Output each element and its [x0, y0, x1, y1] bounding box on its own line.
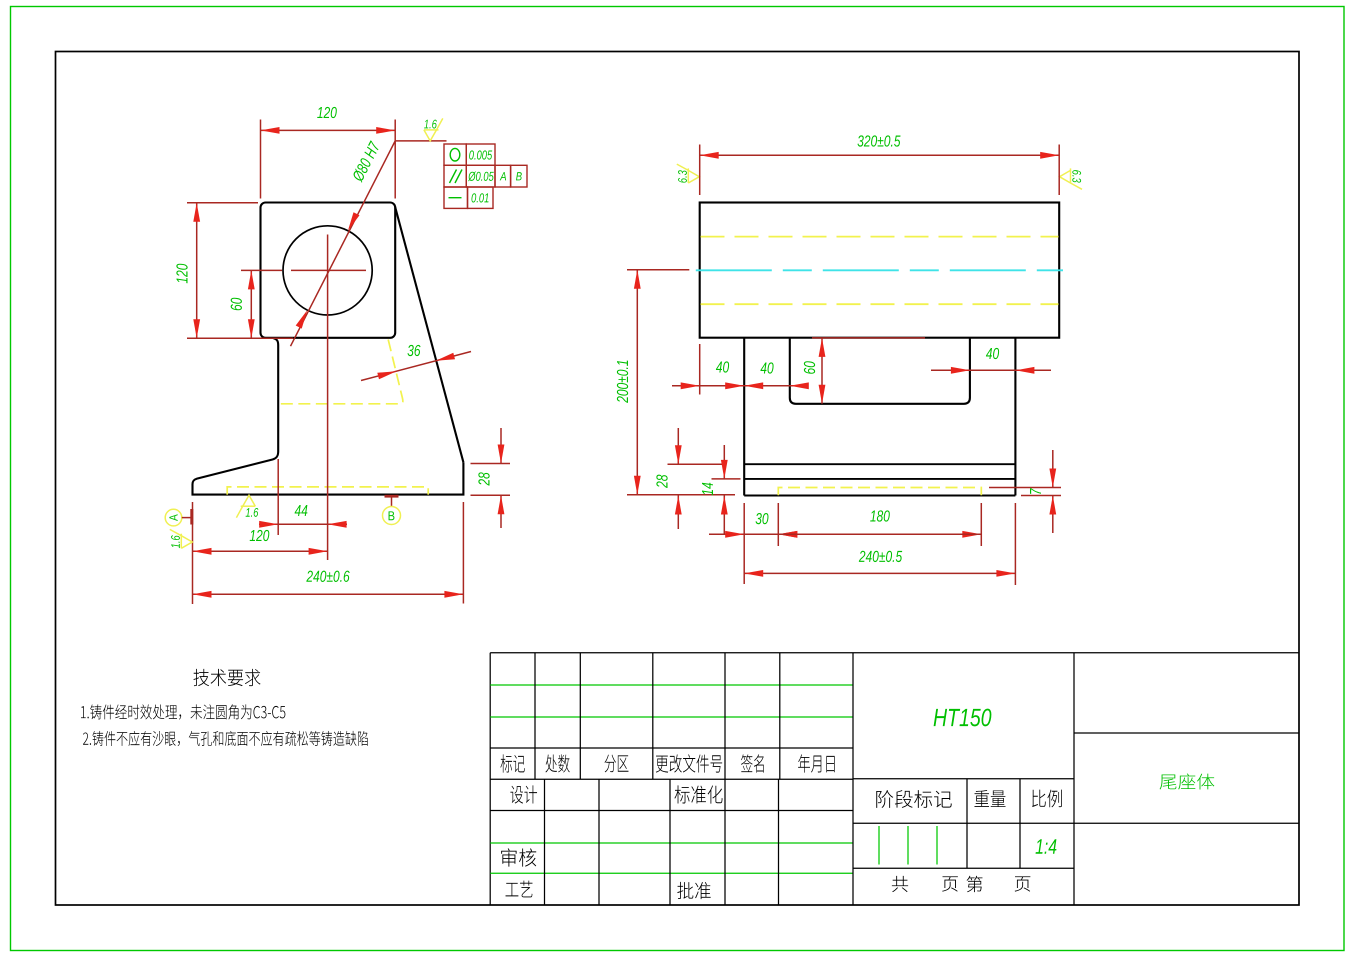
roughness 6.3 right: [1060, 168, 1083, 189]
label 分区: [605, 755, 629, 773]
dim 44: [259, 505, 347, 528]
dim 120 (block height): [176, 203, 200, 338]
dim 36 (rib thickness): [361, 345, 471, 381]
dim 40 40 (left pair): [672, 361, 809, 389]
tolerance frame row3 (straightness 0.01): [444, 187, 493, 208]
label 工艺: [506, 881, 533, 898]
part name 尾座体: [1160, 774, 1215, 790]
dim 60 (center height): [231, 270, 255, 338]
label 批准: [677, 882, 710, 899]
dim 120 (bottom): [193, 530, 328, 555]
right view: bore centerline (cyan): [696, 269, 1063, 271]
dim 120 (block height) extension lines: [187, 203, 293, 338]
dim 28 (right view): [656, 428, 681, 529]
dim 28 (base height): [478, 428, 504, 528]
technical requirements title: [193, 669, 260, 686]
label 比例: [1032, 790, 1062, 808]
dim 40 40 (left) extension line: [699, 344, 701, 395]
dim 44 extension line: [277, 459, 279, 535]
dim 120 (top width) extension lines: [261, 120, 396, 199]
roughness 1.6 left side: [170, 529, 193, 548]
dim 60 (slot depth): [804, 338, 826, 404]
dim 60 (slot depth) extension line: [812, 337, 925, 339]
dim 240±0.6: [193, 571, 464, 598]
right view: hidden bottom slot (yellow dashed): [778, 488, 981, 496]
tolerance frame row1 (roundness 0.005): [444, 144, 495, 165]
roughness 6.3 left: [677, 164, 700, 183]
dim 14: [702, 445, 728, 534]
tolerance frame row2 (parallelism Ø0.05 A B): [444, 165, 527, 187]
right view: base step lines: [744, 464, 1015, 479]
label 标准化: [674, 785, 722, 803]
left view: bore circle Ø80: [283, 226, 372, 315]
label 阶段标记: [876, 790, 951, 808]
label 审核: [501, 848, 536, 866]
label 标记: [500, 754, 524, 772]
left view: vertical centerline: [327, 235, 329, 561]
dim 180: [778, 510, 981, 537]
dim 14 extension line: [712, 478, 741, 480]
dimension Ø80 H7 diameter line with leader: [291, 141, 447, 346]
right view: center slot outline: [790, 338, 970, 404]
label 处数: [545, 754, 569, 772]
dim 320±0.5 extension lines: [700, 145, 1059, 196]
dim 200±0.1 extension lines: [627, 270, 735, 495]
dim 240±0.6 extension lines: [193, 502, 464, 604]
dim 28 (base height) extension lines: [471, 464, 511, 496]
roughness symbol 1.6 on leader: [424, 118, 443, 140]
dim 240±0.5: [744, 551, 1015, 577]
dim 30: [709, 513, 797, 538]
left view: hidden base slot (yellow dashed): [227, 487, 428, 495]
dim 200±0.1: [617, 270, 641, 495]
dim 320±0.5: [700, 135, 1059, 158]
label 重量: [974, 790, 1005, 807]
left view: right slope edge: [395, 207, 463, 462]
title block grid: [490, 653, 1299, 905]
title block stage-mark green dividers: [879, 826, 937, 865]
label 设计: [510, 785, 537, 803]
right view: top prism outline: [700, 203, 1059, 338]
left view: column and base outline: [193, 338, 464, 494]
label 签名: [741, 754, 764, 772]
datum B symbol: [383, 496, 401, 524]
label 年月日: [798, 754, 835, 772]
right view: base outline: [744, 338, 1015, 496]
technical requirement line 1: [81, 704, 285, 719]
label 共页第页: [892, 876, 1031, 892]
dimension text Ø80 H7: [351, 140, 381, 183]
dim 7: [1030, 450, 1056, 533]
scale 1:4: [1036, 839, 1057, 853]
dim 7 extension lines: [989, 488, 1061, 496]
left view: hidden rib edge (yellow dashed): [278, 340, 403, 404]
left view: horizontal centerline: [241, 269, 366, 271]
right view: hidden bore lines (yellow dashed): [701, 237, 1059, 305]
left view: top block outline: [261, 203, 396, 338]
label 更改文件号: [656, 754, 722, 772]
roughness 1.6 base bottom: [236, 495, 258, 518]
dim 30/180/240 extension lines: [744, 503, 1015, 585]
dim 120 (top width): [261, 107, 396, 134]
dim 28 extension line: [668, 463, 724, 465]
dim 40 (right): [931, 348, 1051, 374]
technical requirement line 2: [83, 731, 368, 746]
datum A symbol: [165, 509, 192, 526]
material HT150: [934, 709, 992, 727]
